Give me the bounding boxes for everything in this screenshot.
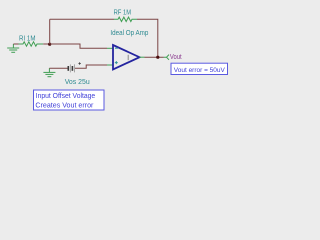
wire: feedback riser from node A up bbox=[49, 19, 51, 44]
wire: ground to Vos bbox=[49, 67, 67, 69]
wire: RF to output node (right feedback drop) bbox=[137, 19, 158, 57]
Vout terminal chevron bbox=[164, 55, 170, 60]
Vos plus polarity mark bbox=[78, 62, 81, 65]
voltage source Vos battery plates bbox=[68, 64, 74, 72]
annotation box: Input Offset Voltage Creates Vout error bbox=[34, 90, 105, 110]
ground (left, at RI input) bbox=[7, 44, 19, 52]
op-amp plus mark bbox=[115, 61, 118, 64]
op-amp ideal indicator I bbox=[127, 55, 129, 60]
resistor RF bbox=[114, 17, 137, 21]
svg-text:Vos 25u: Vos 25u bbox=[65, 79, 90, 86]
svg-text:Input Offset Voltage: Input Offset Voltage bbox=[36, 93, 96, 100]
svg-text:Vout: Vout bbox=[170, 54, 182, 61]
wire: ground to RI bbox=[13, 43, 18, 45]
wire: output stub bbox=[140, 56, 145, 58]
svg-text:Creates Vout error: Creates Vout error bbox=[35, 102, 94, 109]
svg-text:Ideal Op Amp: Ideal Op Amp bbox=[110, 30, 148, 37]
resistor RI bbox=[19, 42, 44, 46]
op-amp U1 triangle bbox=[113, 45, 140, 70]
annotation box: Vout error = 50uV bbox=[171, 63, 228, 74]
output node junction bbox=[156, 56, 159, 59]
svg-text:RI 1M: RI 1M bbox=[19, 35, 36, 42]
node A junction bbox=[48, 43, 51, 46]
wire: RI to node A bbox=[43, 43, 50, 45]
wire: output to Vout terminal bbox=[145, 56, 164, 58]
svg-text:RF 1M: RF 1M bbox=[114, 10, 132, 17]
wire: node A to inverting input (with jog) bbox=[50, 44, 107, 48]
wire: Vos to non-inverting input (with jog) bbox=[75, 65, 107, 68]
op-amp U1 input stub (non-inverting) bbox=[107, 64, 113, 66]
op-amp minus mark bbox=[115, 47, 118, 49]
op-amp U1 input stub (inverting) bbox=[107, 47, 113, 49]
ground (below Vos) bbox=[43, 68, 55, 77]
wire: top feedback run to RF bbox=[50, 18, 114, 20]
svg-text:Vout error = 50uV: Vout error = 50uV bbox=[174, 67, 225, 74]
